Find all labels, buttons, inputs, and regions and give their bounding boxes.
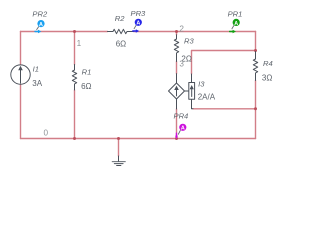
svg-text:I3: I3 [198,80,205,89]
svg-text:A: A [39,22,43,28]
wire top net (20.5,31.5)-(255.5,31.5) [21,31,256,33]
junction sense top on R4 branch [254,49,257,52]
svg-text:1: 1 [77,39,82,48]
svg-text:R1: R1 [82,68,92,77]
I3 sense box arrow [191,89,193,96]
svg-text:2: 2 [179,24,184,33]
junction sense bottom on R4 branch [254,107,257,110]
current source I1 circle [11,65,30,84]
I3 sense box [189,83,195,100]
junction ground [117,137,120,140]
junction node 2 [175,30,178,33]
I3 pin stub bottom of sense box [192,99,194,109]
svg-text:R4: R4 [263,59,273,68]
junction R1 top [73,30,76,33]
node junction dots [73,30,257,140]
I3 sense link diamond-to-box [185,90,189,92]
svg-text:6Ω: 6Ω [81,82,91,91]
junction R1 bottom [73,137,76,140]
net number labels [44,24,185,137]
svg-text:PR1: PR1 [228,10,243,19]
svg-text:3: 3 [179,59,184,68]
wire sense branch bottom (191.5,99.8)-(191.5,108.5)-(255.5,108.5) [193,108,256,110]
I3 pin stub bottom of diamond [176,99,178,109]
resistor R1 (vertical, 6 ohm) [72,65,76,91]
I3 pin stub top of sense box [191,74,193,83]
dependent source I3 diamond [169,83,185,99]
svg-text:2A/A: 2A/A [198,92,216,101]
svg-text:A: A [136,21,140,27]
svg-text:I1: I1 [33,64,39,73]
wire right vertical with R4 [255,32,257,139]
svg-text:6Ω: 6Ω [116,39,126,48]
resistor R4 (vertical, 3 ohm) [253,52,257,81]
junction I3 bottom / PR4 [175,137,178,140]
probe PR3 (blue) [133,19,142,33]
svg-text:0: 0 [44,129,49,138]
wire sense branch top (191.5,81)-(191.5,50.5)-(255.5,50.5) [192,51,256,75]
I3 pin stub top of diamond [176,74,178,83]
wire left vertical through I1 [20,32,22,139]
wire ground stem red part [118,139,120,157]
wire bottom net (20.5,138.5)-(255.5,138.5) [21,138,256,140]
probe PR1 (green) [230,19,240,33]
svg-text:PR2: PR2 [32,9,48,18]
component values [32,39,272,101]
component labels (italic) [32,9,272,121]
current source I1 arrow [20,70,22,83]
svg-text:3A: 3A [32,79,42,88]
resistor R2 (horizontal, 6 ohm) [108,29,134,33]
svg-text:3Ω: 3Ω [262,73,272,82]
resistor R3 (vertical, 2 ohm) [174,35,178,62]
wire R3 branch node2 to node3 to I3 diamond [176,32,178,139]
svg-text:PR3: PR3 [131,9,147,18]
svg-text:A: A [181,126,185,132]
probe PR4 (magenta) [175,124,186,139]
ground symbol [118,156,120,161]
svg-text:R3: R3 [184,37,194,46]
I3 diamond arrow [176,90,178,96]
probe PR2 (azure) [35,20,45,33]
svg-text:A: A [234,21,238,27]
wire R1 branch vertical [74,32,76,139]
svg-text:R2: R2 [115,14,125,23]
svg-text:PR4: PR4 [174,112,189,121]
